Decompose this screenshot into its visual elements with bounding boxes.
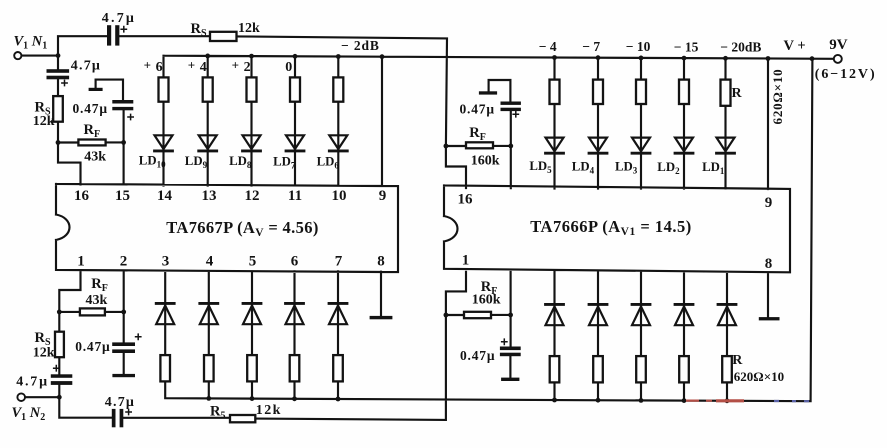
svg-text:16: 16 bbox=[74, 188, 90, 204]
svg-text:2: 2 bbox=[120, 253, 128, 269]
svg-text:LD6: LD6 bbox=[317, 155, 340, 171]
svg-text:4.7μ: 4.7μ bbox=[102, 11, 136, 26]
svg-text:5: 5 bbox=[249, 253, 257, 269]
svg-text:TA7667P (AV = 4.56): TA7667P (AV = 4.56) bbox=[166, 218, 318, 239]
svg-text:7: 7 bbox=[335, 253, 343, 269]
svg-text:12k: 12k bbox=[33, 114, 55, 129]
svg-text:3: 3 bbox=[162, 253, 170, 269]
svg-text:R: R bbox=[732, 353, 743, 368]
svg-text:0: 0 bbox=[285, 60, 292, 75]
svg-text:RF: RF bbox=[469, 125, 486, 143]
svg-text:V +: V + bbox=[784, 38, 806, 54]
svg-text:9: 9 bbox=[379, 188, 387, 204]
svg-text:LD8: LD8 bbox=[229, 154, 252, 170]
svg-text:8: 8 bbox=[765, 256, 773, 272]
svg-text:4: 4 bbox=[206, 253, 214, 269]
svg-text:6: 6 bbox=[291, 253, 299, 269]
svg-text:43k: 43k bbox=[86, 293, 108, 308]
svg-text:LD7: LD7 bbox=[273, 154, 296, 170]
svg-text:LD2: LD2 bbox=[657, 160, 680, 176]
svg-text:1: 1 bbox=[462, 252, 470, 268]
svg-text:− 7: − 7 bbox=[582, 39, 600, 54]
svg-text:10: 10 bbox=[332, 188, 347, 204]
svg-text:LD10: LD10 bbox=[139, 154, 166, 170]
svg-text:15: 15 bbox=[115, 188, 130, 204]
svg-text:− 4: − 4 bbox=[539, 39, 557, 54]
svg-text:4.7μ: 4.7μ bbox=[16, 375, 49, 390]
svg-text:2: 2 bbox=[244, 60, 251, 75]
svg-text:14: 14 bbox=[157, 188, 173, 204]
svg-text:RF: RF bbox=[91, 276, 108, 294]
svg-text:4.7μ: 4.7μ bbox=[71, 59, 101, 74]
svg-text:43k: 43k bbox=[84, 150, 106, 165]
svg-text:8: 8 bbox=[377, 253, 385, 269]
svg-text:620Ω×10: 620Ω×10 bbox=[770, 69, 785, 125]
svg-text:RF: RF bbox=[84, 122, 101, 140]
svg-text:9: 9 bbox=[765, 195, 773, 211]
svg-text:12k: 12k bbox=[33, 345, 55, 360]
svg-text:0.47μ: 0.47μ bbox=[73, 101, 108, 116]
svg-text:LD9: LD9 bbox=[185, 154, 208, 170]
svg-text:TA7666P (AV1 = 14.5): TA7666P (AV1 = 14.5) bbox=[530, 217, 692, 238]
svg-text:+: + bbox=[232, 58, 239, 73]
svg-text:RS: RS bbox=[191, 21, 207, 39]
svg-text:1: 1 bbox=[77, 253, 85, 269]
svg-text:+: + bbox=[188, 58, 195, 73]
svg-text:LD1: LD1 bbox=[702, 160, 725, 176]
svg-text:LD3: LD3 bbox=[615, 160, 638, 176]
svg-text:− 20dB: − 20dB bbox=[720, 40, 761, 55]
svg-text:− 10: − 10 bbox=[626, 39, 651, 54]
svg-text:12k: 12k bbox=[256, 403, 282, 418]
svg-text:12k: 12k bbox=[238, 21, 260, 36]
svg-text:V1 N1: V1 N1 bbox=[14, 33, 48, 51]
svg-text:160k: 160k bbox=[472, 292, 501, 307]
svg-text:+: + bbox=[144, 57, 151, 72]
svg-text:4: 4 bbox=[200, 60, 207, 75]
svg-text:12: 12 bbox=[245, 188, 260, 204]
svg-text:160k: 160k bbox=[471, 153, 500, 168]
svg-text:0.47μ: 0.47μ bbox=[460, 348, 495, 363]
svg-text:0.47μ: 0.47μ bbox=[460, 102, 495, 117]
svg-text:− 15: − 15 bbox=[674, 39, 699, 54]
svg-text:LD5: LD5 bbox=[529, 159, 552, 175]
svg-text:(6−12V): (6−12V) bbox=[815, 67, 877, 82]
svg-text:V1 N2: V1 N2 bbox=[12, 405, 46, 423]
svg-text:− 2dB: − 2dB bbox=[341, 38, 380, 53]
svg-text:4.7μ: 4.7μ bbox=[105, 395, 135, 410]
svg-text:R: R bbox=[732, 86, 743, 101]
svg-text:9V: 9V bbox=[829, 37, 848, 53]
svg-text:620Ω×10: 620Ω×10 bbox=[734, 369, 784, 384]
svg-text:LD4: LD4 bbox=[572, 159, 595, 175]
svg-text:6: 6 bbox=[156, 60, 163, 75]
svg-text:16: 16 bbox=[458, 192, 474, 208]
svg-text:0.47μ: 0.47μ bbox=[75, 339, 110, 354]
svg-text:R5: R5 bbox=[210, 403, 225, 421]
svg-text:13: 13 bbox=[202, 188, 217, 204]
svg-text:11: 11 bbox=[288, 188, 302, 204]
